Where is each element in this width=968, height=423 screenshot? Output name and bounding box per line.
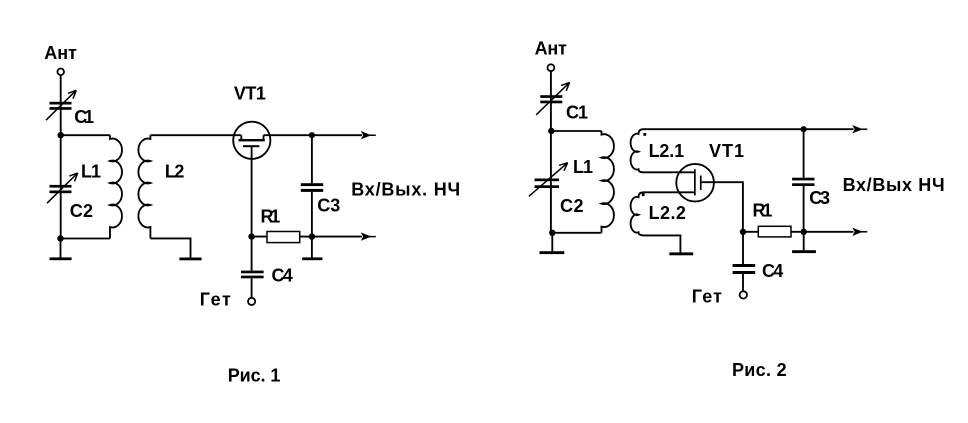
- svg-text:L2.2: L2.2: [649, 203, 686, 223]
- svg-text:C4: C4: [762, 261, 783, 281]
- svg-text:Ант: Ант: [44, 43, 77, 63]
- svg-text:L2: L2: [165, 161, 185, 181]
- svg-text:R1: R1: [261, 206, 281, 226]
- svg-text:Рис. 2: Рис. 2: [732, 360, 787, 380]
- svg-text:Гет: Гет: [200, 290, 231, 310]
- svg-text:C1: C1: [74, 107, 94, 127]
- svg-text:Вх/Вых НЧ: Вх/Вых НЧ: [843, 175, 945, 195]
- svg-text:C1: C1: [566, 103, 588, 123]
- svg-text:L2.1: L2.1: [649, 141, 685, 161]
- svg-text:Вх/Вых. НЧ: Вх/Вых. НЧ: [351, 180, 460, 200]
- svg-text:R1: R1: [753, 201, 773, 221]
- svg-text:C2: C2: [70, 201, 93, 221]
- svg-text:VT1: VT1: [234, 84, 266, 104]
- svg-text:Гет: Гет: [692, 287, 722, 307]
- svg-text:C4: C4: [272, 266, 293, 286]
- svg-text:C2: C2: [560, 196, 584, 216]
- svg-text:C3: C3: [809, 188, 830, 208]
- svg-text:VT1: VT1: [709, 141, 744, 161]
- svg-text:L1: L1: [573, 157, 593, 177]
- svg-text:C3: C3: [317, 196, 340, 216]
- svg-text:Ант: Ант: [535, 39, 567, 59]
- svg-text:Рис. 1: Рис. 1: [228, 365, 281, 385]
- svg-text:L1: L1: [81, 162, 101, 182]
